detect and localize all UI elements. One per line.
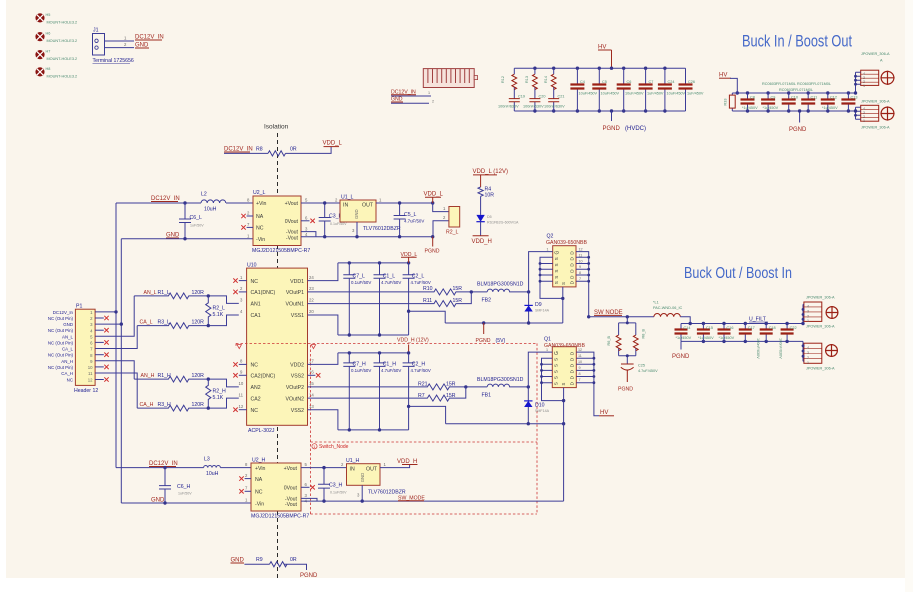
svg-text:15R: 15R (446, 393, 456, 399)
svg-text:OUT: OUT (366, 466, 378, 472)
svg-text:CA2: CA2 (251, 396, 261, 402)
svg-text:S: S (561, 383, 566, 386)
svg-text:D5: D5 (487, 215, 492, 219)
power port VDD_H (regulator) (402, 464, 418, 466)
svg-text:1: 1 (546, 348, 548, 352)
capacitor C9 (767, 93, 769, 111)
svg-text:11: 11 (579, 253, 583, 257)
wire U2_L -Vout merge (301, 232, 316, 237)
test point (buck-in +) (880, 71, 894, 85)
svg-text:C1_L: C1_L (383, 273, 396, 279)
svg-text:Header 12: Header 12 (74, 388, 98, 394)
svg-text:VDD_L: VDD_L (401, 252, 418, 258)
capacitor C22 (786, 324, 788, 342)
power port PGND (HVDC) (611, 111, 613, 121)
mounting hole H5 (35, 13, 77, 25)
svg-text:U_FILT: U_FILT (749, 317, 767, 323)
svg-text:Q2: Q2 (547, 234, 554, 240)
svg-text:1: 1 (547, 247, 549, 251)
svg-text:10: 10 (88, 365, 93, 370)
svg-text:IN: IN (343, 203, 348, 209)
RC branch R14/C21 (544, 68, 565, 111)
capacitor C1_L 4.7uF/50V (374, 263, 386, 335)
svg-text:CA2(DNC): CA2(DNC) (251, 374, 276, 380)
pin P1 12 no-connect (95, 379, 104, 381)
capacitor C3_L (319, 203, 331, 237)
wire R9 to PGND (284, 564, 306, 570)
svg-text:-Vout: -Vout (286, 236, 299, 242)
svg-text:NC: NC (67, 378, 73, 383)
svg-text:(HVDC): (HVDC) (625, 126, 646, 132)
diode D5 (476, 215, 484, 222)
wire P1 pin7 CA_L (95, 326, 137, 349)
svg-text:S: S (554, 358, 559, 361)
wire buck-in bank bottom rail (732, 110, 855, 112)
svg-text:11: 11 (578, 354, 582, 358)
pin U1_L 3 GND stub (356, 222, 358, 237)
capacitor C26 (685, 68, 687, 111)
svg-text:VDD_H: VDD_H (397, 459, 417, 465)
svg-text:C7_L: C7_L (353, 273, 366, 279)
svg-text:-Vout: -Vout (285, 502, 298, 508)
svg-text:CA_H: CA_H (61, 371, 73, 376)
svg-text:C8: C8 (750, 96, 755, 100)
svg-text:24: 24 (309, 275, 314, 280)
svg-text:0Vout: 0Vout (285, 219, 299, 225)
svg-text:R2_H: R2_H (213, 389, 227, 395)
svg-text:CA_L: CA_L (62, 347, 74, 352)
svg-text:FB2: FB2 (482, 298, 492, 304)
svg-text:C12: C12 (830, 96, 837, 100)
junction C6_L top (183, 201, 186, 204)
svg-text:23: 23 (309, 286, 314, 291)
svg-text:13: 13 (309, 404, 314, 409)
svg-text:4: 4 (807, 304, 809, 308)
red dashed box Switch_Node (310, 441, 537, 443)
svg-text:CA1: CA1 (251, 313, 261, 319)
wire left bus DC12V vertical (115, 203, 117, 468)
svg-text:0.1uF/50V: 0.1uF/50V (330, 222, 347, 226)
svg-text:120R: 120R (192, 402, 205, 408)
svg-text:2: 2 (807, 356, 809, 360)
svg-text:0R: 0R (290, 557, 297, 563)
capacitor C3_H (318, 468, 330, 502)
svg-text:*1u/450V: *1u/450V (719, 336, 735, 340)
svg-text:15R: 15R (453, 298, 463, 304)
svg-text:C20: C20 (539, 95, 546, 99)
svg-text:Switch_Node: Switch_Node (319, 444, 349, 450)
svg-text:10: 10 (579, 259, 583, 263)
svg-text:15R: 15R (453, 286, 463, 292)
svg-text:10: 10 (578, 360, 582, 364)
power port PGND (5V) (483, 323, 485, 334)
svg-text:RS1FB2G-600V/1A: RS1FB2G-600V/1A (487, 221, 519, 225)
svg-text:9: 9 (579, 366, 581, 370)
wire U10 pin17 VDD2 to H cap rail (308, 353, 338, 365)
wire VSS1 link to PGND rail (409, 311, 446, 323)
pin U2_L 2 NA no-connect (247, 215, 253, 217)
svg-text:C13: C13 (851, 96, 858, 100)
svg-text:DC12V_In: DC12V_In (53, 310, 74, 315)
power port VDD_H (bootstrap) (473, 235, 489, 237)
svg-text:VOutP2: VOutP2 (286, 385, 304, 391)
svg-text:10uH: 10uH (204, 207, 217, 213)
svg-text:SMF14A: SMF14A (535, 409, 550, 413)
svg-text:C22: C22 (790, 326, 797, 330)
wire P1 pin11 CA_H (95, 373, 137, 408)
wire Q1 gate (528, 352, 552, 387)
wire HV to bank (730, 78, 737, 93)
pin P1 10 no-connect (95, 366, 104, 368)
svg-text:0R: 0R (290, 147, 297, 153)
wire Q2 gate (529, 252, 553, 292)
svg-text:C17: C17 (748, 326, 755, 330)
svg-text:10uF/450V: 10uF/450V (601, 92, 620, 96)
svg-text:J1: J1 (93, 28, 99, 34)
svg-text:VSS2: VSS2 (291, 374, 304, 380)
wire P1 pin3 to GND bus (95, 323, 121, 325)
mounting hole H8 (35, 67, 77, 79)
svg-text:100nF/630V: 100nF/630V (756, 338, 760, 359)
svg-text:BLM18PG300SN1D: BLM18PG300SN1D (477, 377, 524, 383)
pin P1 2 no-connect (95, 317, 104, 319)
svg-text:VDD_L: VDD_L (424, 192, 444, 198)
wire U2_H -Vout merge (301, 498, 317, 501)
mounting hole H7 (35, 50, 77, 62)
svg-text:*1u/450V: *1u/450V (676, 336, 692, 340)
svg-text:4.7uF/50V: 4.7uF/50V (411, 280, 431, 285)
svg-text:PGND: PGND (425, 249, 440, 255)
svg-text:C1_H: C1_H (383, 362, 397, 368)
junction PGND rail end (431, 235, 434, 238)
svg-text:C11: C11 (811, 96, 818, 100)
diode D9 SMF14A (528, 292, 530, 323)
svg-text:U1_H: U1_H (346, 458, 360, 464)
svg-text:NC (Out Pin): NC (Out Pin) (48, 340, 74, 345)
svg-text:H7: H7 (46, 50, 51, 54)
power port VDD_L (5V rail) (431, 201, 434, 204)
svg-text:PGND: PGND (789, 127, 807, 133)
svg-text:C6_H: C6_H (177, 484, 191, 490)
svg-text:C3_H: C3_H (329, 483, 343, 489)
capacitor C6 (623, 68, 625, 111)
svg-text:C5_L: C5_L (404, 212, 417, 218)
svg-text:VDD2: VDD2 (290, 363, 304, 369)
wire Q1 source to SW_MODE (563, 424, 565, 501)
svg-text:5.1K: 5.1K (213, 395, 224, 401)
svg-text:15R: 15R (446, 381, 456, 387)
resistor R4 10R (478, 187, 483, 196)
capacitor C7 (645, 68, 647, 111)
svg-text:S: S (554, 276, 559, 279)
svg-text:*1u/450V: *1u/450V (822, 106, 838, 110)
svg-text:100nF/630V: 100nF/630V (498, 105, 519, 109)
svg-text:VDD_L (12V): VDD_L (12V) (473, 169, 508, 175)
pin U2_L 7 NC no-connect (247, 226, 253, 228)
wire U1_L OUT to VDD_L node (376, 202, 433, 204)
wire U2_H +Vout to U1_H (301, 467, 347, 469)
svg-text:R8_B: R8_B (642, 329, 646, 339)
svg-text:JPOWER_306-A: JPOWER_306-A (806, 296, 835, 300)
wire J1 pin2 to GND (105, 47, 135, 49)
resistor R2_H 5.1K (206, 379, 211, 408)
pin U2_H 7 NC no-connect (245, 490, 251, 492)
pin P1 8 no-connect (95, 354, 104, 356)
resistor R6_B (snubber) (619, 317, 636, 364)
svg-text:D10: D10 (535, 403, 545, 409)
svg-text:NC (Out Pin): NC (Out Pin) (48, 316, 74, 321)
wire CA_H to U10 CA2 (208, 398, 239, 408)
svg-text:NC: NC (251, 279, 259, 285)
svg-text:16: 16 (309, 370, 314, 375)
svg-text:0Vout: 0Vout (284, 486, 298, 492)
svg-text:C6: C6 (627, 80, 632, 84)
capacitor C6_L (179, 203, 191, 239)
pin U2_H 6 0Vout no-connect (301, 486, 310, 488)
svg-text:15: 15 (309, 381, 314, 386)
svg-text:TLV76012DBZR: TLV76012DBZR (363, 226, 401, 232)
svg-text:R13: R13 (525, 76, 529, 83)
svg-text:*1u/450V: *1u/450V (742, 106, 758, 110)
pin U10 9 no-connect (239, 374, 247, 376)
svg-text:4.7uF/50V: 4.7uF/50V (381, 280, 401, 285)
svg-text:14: 14 (309, 392, 314, 397)
connector J1 (93, 28, 134, 65)
svg-text:0.1uF/50V: 0.1uF/50V (351, 280, 371, 285)
svg-text:HV: HV (719, 73, 727, 79)
wire P1 pin1 to DC12V bus (95, 311, 116, 313)
svg-text:Q1: Q1 (544, 337, 551, 343)
wire AN_L to U10 AN1 (208, 296, 239, 304)
svg-text:C15: C15 (706, 326, 713, 330)
svg-text:C26: C26 (688, 80, 695, 84)
svg-text:1uF/450V: 1uF/450V (647, 92, 664, 96)
svg-text:H8: H8 (46, 67, 51, 71)
svg-text:C16: C16 (727, 326, 734, 330)
wire DC12V_IN rail top (116, 202, 253, 204)
wire VSS2 cap rail bottom (338, 429, 409, 431)
capacitor C13 (847, 93, 849, 111)
svg-text:R9: R9 (256, 557, 263, 563)
svg-text:JPOWER_306-A: JPOWER_306-A (861, 52, 890, 56)
red dashed blanket VDD_H (12V) (236, 343, 537, 514)
svg-text:H5: H5 (46, 13, 51, 17)
svg-text:R2_L: R2_L (213, 306, 226, 312)
svg-text:C21: C21 (558, 95, 565, 99)
resistor R2_L (jumper) (433, 203, 460, 237)
svg-text:U10: U10 (247, 263, 257, 269)
wire Q2 drain bus (576, 252, 589, 317)
svg-text:JPOWER_306-A: JPOWER_306-A (806, 367, 835, 371)
svg-text:VOutN2: VOutN2 (286, 396, 305, 402)
svg-text:R10: R10 (423, 286, 433, 292)
svg-text:OUT: OUT (362, 203, 374, 209)
svg-text:1: 1 (807, 361, 809, 365)
power port PGND (buck-in bank) (799, 111, 801, 123)
dcdc module U2_L (247, 190, 310, 254)
svg-text:4: 4 (807, 346, 809, 350)
svg-text:AN_H: AN_H (141, 373, 155, 379)
svg-text:22: 22 (309, 298, 314, 303)
svg-text:S: S (554, 370, 559, 373)
transistor Q2 GAN039-650NBB (546, 234, 587, 287)
svg-text:4.7uF/50V: 4.7uF/50V (411, 368, 431, 373)
svg-text:VSS1: VSS1 (291, 313, 304, 319)
capacitor C7_H 0.1uF/50V (343, 353, 355, 430)
svg-text:GND: GND (63, 322, 73, 327)
capacitor C2_L 4.7uF/50V (403, 263, 415, 335)
svg-text:RC0603FR-071M0L: RC0603FR-071M0L (762, 82, 796, 86)
wire DC12V_IN to R8 (224, 152, 268, 154)
svg-text:R33: R33 (724, 99, 728, 106)
svg-text:C25: C25 (638, 364, 645, 368)
capacitor C5_L (394, 203, 406, 237)
svg-text:20: 20 (309, 309, 314, 314)
svg-text:Terminal 1725656: Terminal 1725656 (93, 58, 134, 64)
capacitor C5 (598, 68, 600, 111)
svg-text:7: 7 (579, 277, 581, 281)
connector J4 (buck-in +) (854, 52, 890, 95)
svg-text:C7_H: C7_H (353, 362, 367, 368)
svg-text:-Vin: -Vin (256, 237, 265, 243)
mounting hole H6 (35, 32, 77, 44)
capacitor C7_L 0.1uF/50V (343, 263, 355, 335)
svg-text:R6_B: R6_B (607, 336, 611, 346)
svg-text:2: 2 (432, 100, 434, 104)
svg-text:GND: GND (354, 209, 359, 219)
svg-text:C5: C5 (602, 80, 607, 84)
svg-text:R1_L: R1_L (158, 290, 171, 296)
wire PGND rail (gate drive top) (445, 322, 563, 324)
svg-text:GAN039-650NBB: GAN039-650NBB (546, 240, 587, 246)
svg-text:12: 12 (239, 404, 244, 409)
svg-text:5.1K: 5.1K (213, 312, 224, 318)
svg-text:S: S (554, 281, 559, 284)
wire J1 pin1 to DC12V_IN (105, 40, 135, 42)
svg-text:C24: C24 (668, 80, 675, 84)
pin U10 1 no-connect (239, 280, 247, 282)
svg-text:11: 11 (88, 371, 93, 376)
svg-text:NC (Out Pin): NC (Out Pin) (48, 353, 74, 358)
svg-text:3: 3 (807, 309, 809, 313)
svg-text:MGJ2D121505BMPC-R7: MGJ2D121505BMPC-R7 (251, 514, 309, 520)
svg-text:3: 3 (807, 351, 809, 355)
power port PGND (5V reg) (432, 237, 434, 247)
svg-text:R3_L: R3_L (158, 320, 171, 326)
svg-text:VDD_H (12V): VDD_H (12V) (397, 338, 429, 344)
svg-text:C6_L: C6_L (190, 215, 203, 221)
svg-text:FB1: FB1 (482, 393, 492, 399)
svg-text:S: S (554, 263, 559, 266)
svg-text:4.7uF/50V: 4.7uF/50V (381, 368, 401, 373)
svg-text:Buck In / Boost Out: Buck In / Boost Out (742, 32, 852, 51)
capacitor C12 (827, 93, 829, 111)
svg-text:C7: C7 (649, 80, 654, 84)
svg-text:C2_H: C2_H (412, 362, 426, 368)
wire U_FILT top rail (681, 323, 803, 325)
svg-text:120R: 120R (192, 290, 205, 296)
wire GND to R9 (244, 563, 269, 565)
wire SW_MODE rail (gate drive bottom) (446, 423, 564, 425)
svg-text:1: 1 (428, 91, 430, 95)
pin U10 16 no-connect (308, 374, 316, 376)
svg-text:NC: NC (251, 363, 259, 369)
capacitor C16 (723, 324, 725, 342)
wire P1 pin5 AN_L (95, 296, 134, 336)
svg-text:R8: R8 (256, 147, 263, 153)
wire HV bank bottom rail (514, 110, 685, 112)
capacitor C2_H 4.7uF/50V (403, 353, 415, 430)
svg-text:VDD1: VDD1 (290, 279, 304, 285)
wire HV bank top rail (514, 67, 685, 69)
svg-text:10R: 10R (485, 193, 495, 199)
svg-text:1: 1 (807, 319, 809, 323)
svg-text:Buck Out / Boost In: Buck Out / Boost In (684, 265, 792, 282)
wire R4 to D5 (480, 196, 482, 215)
svg-text:C2_L: C2_L (412, 273, 425, 279)
wire Q2 source bus (540, 257, 563, 323)
svg-text:RC0603FR-071M0L: RC0603FR-071M0L (779, 88, 813, 92)
svg-text:VDD_L: VDD_L (323, 141, 343, 147)
svg-text:AN_L: AN_L (144, 290, 157, 296)
svg-text:R14: R14 (544, 76, 548, 83)
wire GND rail bottom (121, 502, 251, 504)
svg-text:+Vout: +Vout (284, 466, 298, 472)
svg-text:4.7uF/450V: 4.7uF/450V (638, 369, 658, 373)
pin P1 4 no-connect (95, 329, 104, 331)
svg-text:+Vin: +Vin (256, 201, 267, 207)
RC branch R12/C19 (498, 68, 525, 111)
svg-text:C19: C19 (518, 95, 525, 99)
svg-text:*L1: *L1 (653, 301, 659, 305)
pin U2_L 6 0Vout no-connect (301, 220, 310, 222)
svg-text:IN: IN (350, 466, 355, 472)
wire SW NODE rail (589, 316, 654, 318)
svg-text:100nF/630V: 100nF/630V (544, 105, 565, 109)
svg-text:CA_L: CA_L (140, 320, 153, 326)
svg-text:NC: NC (255, 490, 263, 496)
wire U_FILT bottom rail (681, 340, 803, 342)
wire R8 to VDD_L (286, 147, 332, 154)
svg-text:C10: C10 (791, 96, 798, 100)
svg-text:AN1: AN1 (251, 302, 261, 308)
power port VDD_H stub to rail (408, 345, 410, 353)
pin U2_H 2 NA no-connect (245, 478, 251, 480)
power port PGND (u_filt) (680, 341, 682, 349)
wire buck-in bank top rail (732, 92, 855, 94)
svg-text:12: 12 (578, 348, 582, 352)
resistor R8_B (snubber) (633, 335, 638, 351)
svg-text:0.1uF/50V: 0.1uF/50V (351, 368, 371, 373)
svg-text:1: 1 (863, 119, 865, 123)
svg-text:C14: C14 (684, 326, 691, 330)
svg-text:120R: 120R (192, 320, 205, 326)
svg-text:100nF/630V: 100nF/630V (523, 105, 544, 109)
svg-text:G: G (555, 250, 561, 254)
svg-text:1: 1 (313, 445, 315, 449)
svg-text:C4: C4 (580, 80, 585, 84)
svg-text:S: S (554, 382, 559, 385)
svg-text:AN_L: AN_L (62, 334, 74, 339)
svg-text:S: S (561, 282, 566, 285)
header P1 (48, 304, 98, 395)
pin P1 6 no-connect (95, 341, 104, 343)
pin U10 8 no-connect (239, 363, 247, 365)
wire AN_H to U10 AN2 (208, 379, 239, 387)
svg-text:AN_H: AN_H (61, 359, 73, 364)
wire P1 pin9 AN_H (95, 361, 134, 379)
svg-text:P1: P1 (76, 304, 82, 310)
